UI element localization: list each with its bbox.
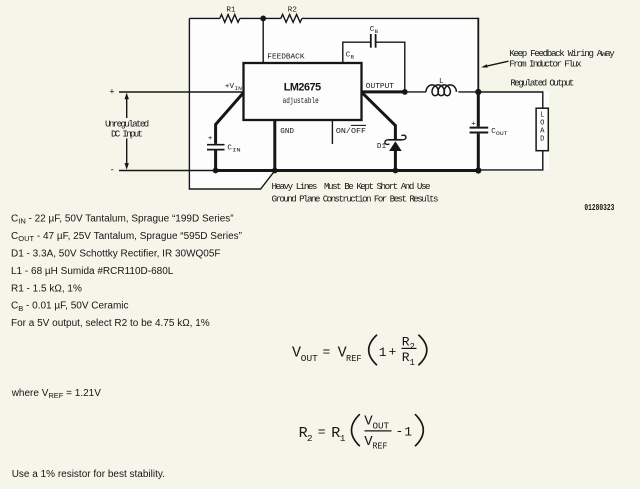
svg-text:adjustable: adjustable [283,96,319,106]
svg-text:For a 5V output, select R2 to: For a 5V output, select R2 to be 4.75 kΩ… [11,318,210,329]
svg-text:R1: R1 [226,6,236,14]
svg-text:A: A [540,127,545,135]
svg-text:D: D [540,135,544,143]
svg-text:=: = [318,425,326,440]
svg-text:L: L [540,111,544,119]
svg-text:+: + [471,120,476,128]
svg-text:Heavy Lines Must Be Kept Shor: Heavy Lines Must Be Kept Short And Use [272,181,431,192]
svg-text:Keep Feedback Wiring Away: Keep Feedback Wiring Away [509,48,615,59]
svg-text:CIN - 22 µF, 50V Tantalum, Spr: CIN - 22 µF, 50V Tantalum, Sprague “199D… [11,213,234,225]
svg-text:IN: IN [234,85,242,92]
svg-text:B: B [351,54,355,61]
svg-text:COUT - 47 µF, 25V Tantalum, Sp: COUT - 47 µF, 25V Tantalum, Sprague “595… [11,231,242,243]
svg-text:D1: D1 [377,143,387,151]
svg-text:-: - [396,424,404,439]
svg-text:OUTPUT: OUTPUT [366,83,395,91]
svg-text:ON/OFF: ON/OFF [336,128,367,136]
svg-text:Regulated Output: Regulated Output [510,78,574,89]
svg-text:=: = [323,345,331,360]
svg-text:+: + [208,135,213,143]
svg-text:2: 2 [410,342,415,352]
svg-text:1: 1 [404,425,412,440]
svg-text:CB - 0.01 µF, 50V Ceramic: CB - 0.01 µF, 50V Ceramic [11,301,129,313]
svg-text:OUT: OUT [301,353,318,364]
svg-text:OUT: OUT [373,422,390,432]
svg-text:-: - [110,166,115,176]
svg-text:+: + [389,345,397,360]
svg-text:1: 1 [340,433,346,444]
svg-text:L: L [439,78,444,86]
svg-text:FEEDBACK: FEEDBACK [267,54,305,62]
svg-text:1: 1 [379,345,387,360]
svg-text:From Inductor Flux: From Inductor Flux [509,59,582,70]
svg-text:+: + [109,87,114,97]
svg-text:1: 1 [410,358,415,368]
svg-text:Use a 1% resistor for best sta: Use a 1% resistor for best stability. [12,469,165,480]
svg-text:B: B [375,28,379,35]
svg-text:IN: IN [232,147,241,154]
svg-text:D1 - 3.3A, 50V Schottky Rectif: D1 - 3.3A, 50V Schottky Rectifier, IR 30… [11,249,221,260]
svg-text:DC Input: DC Input [111,129,143,140]
svg-text:+V: +V [225,83,235,91]
svg-text:L1 - 68 µH Sumida #RCR110D-680: L1 - 68 µH Sumida #RCR110D-680L [11,266,174,277]
svg-text:V: V [292,344,301,361]
svg-text:REF: REF [346,353,362,364]
svg-text:LM2675: LM2675 [284,81,321,93]
svg-text:GND: GND [280,128,294,136]
svg-text:O: O [540,119,544,127]
svg-text:R1 - 1.5 kΩ, 1%: R1 - 1.5 kΩ, 1% [11,283,82,294]
svg-text:REF: REF [373,442,388,452]
svg-text:Ground Plane Construction For: Ground Plane Construction For Best Resul… [272,193,439,204]
svg-text:01280323: 01280323 [584,202,614,213]
svg-text:OUT: OUT [496,130,508,137]
svg-text:2: 2 [307,433,313,444]
svg-text:R2: R2 [288,6,298,14]
